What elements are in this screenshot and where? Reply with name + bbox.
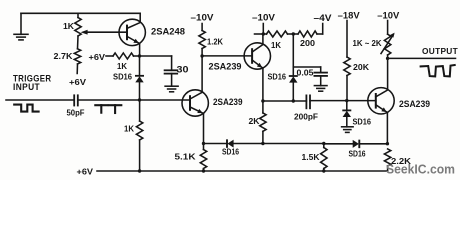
wire -10V to R10 bbox=[387, 21, 389, 35]
capacitor C3 0.05 bbox=[314, 72, 327, 74]
wire D4 to node H2 bbox=[234, 143, 263, 145]
svg-text:5.1K: 5.1K bbox=[175, 152, 197, 162]
wire R8 to mid wire bbox=[262, 131, 264, 143]
resistor R8 2K bbox=[260, 113, 266, 131]
resistor R4 1K bbox=[136, 121, 142, 140]
resistor R11 5.1K bbox=[203, 144, 205, 150]
wire -18V to R9 bbox=[346, 21, 348, 58]
svg-text:2SA239: 2SA239 bbox=[213, 97, 243, 107]
resistor R12 1.5K bbox=[323, 144, 325, 148]
resistor R10 variable 1K~2K bbox=[384, 34, 390, 55]
diode D3 SD16 bbox=[343, 109, 350, 111]
svg-text:1K: 1K bbox=[124, 124, 135, 134]
svg-text:SD16: SD16 bbox=[349, 149, 366, 158]
diode D5 SD16 pointing right bbox=[358, 141, 360, 148]
wire Q4 collector down to node K bbox=[386, 112, 388, 143]
svg-text:–10V: –10V bbox=[191, 12, 214, 22]
svg-text:SD16: SD16 bbox=[353, 116, 372, 126]
wire node C to Q3 base bbox=[202, 55, 252, 57]
wire D3 to ground bbox=[346, 117, 348, 127]
wire D1 to trigger wire node B bbox=[139, 82, 141, 100]
svg-text:2SA239: 2SA239 bbox=[209, 62, 242, 72]
svg-text:2SA248: 2SA248 bbox=[151, 27, 185, 37]
wire R2 bottom +6V stub bbox=[76, 64, 78, 74]
wire output line bbox=[388, 57, 456, 59]
wire rail stub left of node E bbox=[255, 33, 267, 35]
capacitor C2 30 bbox=[165, 69, 178, 71]
wire to 1.5K node bbox=[263, 143, 324, 145]
wire Q1 collector down to node A bbox=[139, 44, 141, 57]
wire top rail ground to Q1 emitter bbox=[21, 12, 140, 14]
capacitor C4 200pF bbox=[305, 95, 307, 108]
trigger input waveform bbox=[14, 105, 38, 112]
wire trigger input to C1 bbox=[6, 99, 74, 101]
ground bbox=[20, 13, 22, 34]
resistor R9 20K bbox=[344, 57, 350, 76]
node F junction bbox=[292, 32, 295, 35]
svg-text:–10V: –10V bbox=[377, 10, 399, 20]
resistor R7 200 bbox=[288, 33, 299, 35]
svg-text:SD16: SD16 bbox=[222, 148, 239, 157]
transistor Q4 2SA239 bbox=[368, 88, 394, 114]
diode D1 SD16 bbox=[136, 75, 143, 77]
wire Q3 collector down to node H bbox=[262, 68, 264, 113]
resistor R13 2.2K bbox=[384, 149, 390, 166]
node E junction bbox=[262, 32, 265, 35]
wire node I to diode D3 bbox=[346, 101, 348, 111]
wire R7 to -4V bbox=[317, 33, 323, 35]
coupled pulse waveform bbox=[95, 104, 107, 106]
svg-text:200pF: 200pF bbox=[294, 112, 318, 122]
resistor R1 1K (with tap arrow) bbox=[75, 18, 81, 37]
diode D2 SD16 bbox=[290, 75, 297, 77]
wire C3 to ground bbox=[320, 76, 322, 86]
svg-text:2K: 2K bbox=[249, 116, 261, 126]
wire R1 bottom to R2 top bbox=[77, 36, 80, 49]
capacitor C1 50pF bbox=[73, 95, 75, 105]
svg-text:–10V: –10V bbox=[252, 12, 275, 22]
svg-text:30: 30 bbox=[177, 65, 189, 75]
svg-text:SeekIC.com: SeekIC.com bbox=[386, 162, 455, 177]
wire 2K top node H to 200pF bbox=[263, 100, 307, 102]
wire D2 to node G bbox=[292, 83, 294, 101]
node I junction bbox=[345, 99, 348, 102]
svg-text:+6V: +6V bbox=[77, 167, 94, 177]
svg-text:200: 200 bbox=[300, 38, 315, 48]
svg-text:1K ~ 2K: 1K ~ 2K bbox=[353, 38, 382, 48]
svg-text:INPUT: INPUT bbox=[13, 82, 40, 92]
wire node F down to diode D2 bbox=[292, 34, 294, 76]
transistor Q2 2SA239 bbox=[182, 90, 208, 116]
mid wire Q2 collector to Q4 collector bbox=[204, 143, 228, 145]
transistor Q1 2SA248 bbox=[119, 19, 145, 45]
resistor R5 1.2K bbox=[199, 31, 205, 49]
wire branch to capacitor C3 bbox=[293, 66, 320, 68]
wire rail to R1 top bbox=[77, 13, 79, 17]
ground under D3 bbox=[342, 126, 354, 128]
wire C2 to ground bbox=[171, 74, 173, 87]
svg-text:+6V: +6V bbox=[69, 77, 86, 87]
node J junction bbox=[386, 57, 389, 60]
ground under C3 bbox=[314, 85, 327, 87]
node B junction bbox=[138, 98, 141, 101]
wire Q1 base with arrow to R1 bbox=[85, 31, 127, 33]
diode D4 SD16 pointing left bbox=[226, 140, 228, 147]
wire Q2 collector down to node D bbox=[203, 113, 205, 143]
svg-text:2.7K: 2.7K bbox=[54, 51, 74, 61]
svg-text:1K: 1K bbox=[117, 62, 127, 71]
resistor R2 2.7K bbox=[74, 49, 80, 64]
wire R9 to node I bbox=[346, 76, 348, 101]
output waveform bbox=[421, 65, 455, 76]
svg-text:+6V: +6V bbox=[89, 52, 106, 62]
resistor R3 1K horizontal bbox=[113, 53, 134, 59]
svg-text:1.5K: 1.5K bbox=[302, 152, 321, 162]
wire node B to R4 bbox=[139, 100, 141, 121]
transistor Q3 2SA239 (label left) bbox=[244, 43, 270, 69]
wire node C down to Q2 emitter bbox=[201, 56, 203, 92]
svg-text:1K: 1K bbox=[271, 40, 282, 50]
wire R4 to +6V rail bbox=[139, 140, 141, 171]
wire to diode D5 bbox=[324, 143, 353, 145]
wire node A down to diode D1 bbox=[139, 56, 141, 76]
wire node J to Q4 emitter bbox=[387, 58, 389, 89]
wire -10V to R5 bbox=[201, 24, 203, 31]
ground under C2 bbox=[165, 85, 178, 87]
node A junction bbox=[138, 54, 141, 57]
svg-text:–18V: –18V bbox=[338, 10, 360, 20]
svg-text:SD16: SD16 bbox=[113, 72, 132, 82]
svg-text:0.05: 0.05 bbox=[297, 68, 314, 78]
svg-text:1.2K: 1.2K bbox=[207, 37, 224, 47]
node C junction bbox=[200, 54, 203, 57]
svg-text:20K: 20K bbox=[353, 62, 370, 72]
node G junction bbox=[292, 99, 295, 102]
wire C1 to Q2 base bbox=[78, 99, 190, 101]
wire R5 to node C bbox=[201, 49, 203, 57]
svg-text:1K: 1K bbox=[63, 21, 75, 31]
wire R10 to node J bbox=[387, 55, 389, 58]
wire -10V to node E bbox=[262, 24, 264, 35]
resistor R6 1K bbox=[267, 31, 288, 37]
svg-text:2SA239: 2SA239 bbox=[399, 99, 430, 109]
wire Q3 emitter up to -10V rail node E bbox=[262, 34, 264, 44]
node H junction bbox=[261, 99, 264, 102]
svg-text:OUTPUT: OUTPUT bbox=[422, 46, 458, 56]
svg-text:SD16: SD16 bbox=[268, 71, 287, 81]
svg-text:–4V: –4V bbox=[314, 13, 332, 23]
wire C4 to Q4 base bbox=[310, 100, 376, 102]
wire D5 to node K bbox=[359, 143, 387, 145]
svg-text:50pF: 50pF bbox=[67, 108, 85, 118]
wire branch node A to capacitor C2 bbox=[140, 55, 172, 57]
